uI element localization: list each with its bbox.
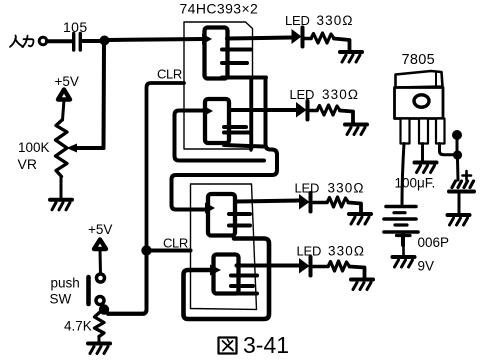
wire CLR top xyxy=(147,83,185,246)
+5V output terminal dot xyxy=(452,130,462,140)
counter U1a QB stub xyxy=(222,48,251,52)
battery BT1 006P bars xyxy=(384,207,418,233)
wire VR to ground xyxy=(60,177,63,200)
LED D4 xyxy=(299,258,310,274)
ground (LED4) xyxy=(351,280,373,290)
counter U1b clock arrow xyxy=(203,106,213,117)
counter U1b QD stub xyxy=(224,145,263,147)
svg-text:330Ω: 330Ω xyxy=(322,87,359,102)
resistor R4 330 zigzag xyxy=(328,261,350,271)
counter U1c QA output wire to LED3 xyxy=(235,201,300,202)
ground (LED3) xyxy=(349,214,371,224)
resistor 4.7K zigzag xyxy=(95,312,105,337)
wire R2 to ground xyxy=(340,111,353,125)
wire LED4 to resistor xyxy=(313,265,329,269)
svg-text:3-41: 3-41 xyxy=(243,332,289,358)
counter U1a QC stub xyxy=(222,61,247,65)
counter U1b QB stub xyxy=(224,125,246,129)
svg-text:105: 105 xyxy=(63,19,88,35)
wire LED3 to resistor xyxy=(313,201,328,205)
svg-text:330Ω: 330Ω xyxy=(328,244,365,259)
capacitor C2 100uF top plate hatched xyxy=(452,181,474,188)
ground (battery) xyxy=(393,257,415,267)
wire node down to VR wiper xyxy=(102,45,107,148)
svg-text:CLR: CLR xyxy=(157,67,182,82)
wire pin1 to battery xyxy=(402,144,404,205)
push switch SW plate xyxy=(86,277,91,304)
wire junction down to capacitor xyxy=(456,160,460,181)
LED D3 xyxy=(299,194,310,210)
counter U1c QC stub xyxy=(229,224,250,228)
counter U1a QA output wire to LED1 xyxy=(227,38,292,39)
wire LED2 to resistor xyxy=(310,109,318,113)
wire SW node to CLR line xyxy=(108,312,144,316)
svg-text:74HC393×2: 74HC393×2 xyxy=(180,1,259,17)
svg-text:VR: VR xyxy=(18,156,37,172)
IC outline top (thin) xyxy=(184,22,253,149)
counter U1c QB stub xyxy=(229,212,250,216)
wire capacitor to node xyxy=(82,39,100,43)
svg-text:CLR: CLR xyxy=(163,236,188,251)
wire CLR bottom to IC xyxy=(151,249,191,253)
svg-text:LED: LED xyxy=(295,181,320,196)
ground (LED1) xyxy=(340,52,362,62)
wire R4 to ground xyxy=(350,267,365,280)
svg-text:9V: 9V xyxy=(418,259,435,274)
LED D2 xyxy=(296,102,307,118)
wire node to counter1 clock xyxy=(108,39,203,40)
wire input to capacitor xyxy=(47,39,71,43)
node junction dot xyxy=(100,36,110,46)
regulator U2 7805 hole xyxy=(414,95,429,107)
capacitor C2 100uF bottom plate xyxy=(449,190,474,194)
VR wiper arrow xyxy=(67,144,78,153)
counter1 clock arrow xyxy=(202,34,212,45)
wire junction up to +5V terminal xyxy=(456,140,459,151)
counter U1d QB stub xyxy=(231,274,257,278)
ground (4.7K) xyxy=(88,344,110,354)
wire pin3 output xyxy=(440,144,454,155)
resistor R1 330 zigzag xyxy=(311,33,334,43)
push switch SW contact bottom xyxy=(96,297,104,305)
svg-text:SW: SW xyxy=(50,292,72,307)
wire battery stem xyxy=(397,234,411,237)
counter U1d QD stub xyxy=(231,292,257,296)
counter U1d block xyxy=(214,255,239,294)
svg-text:+5V: +5V xyxy=(88,222,112,237)
regulator U2 pin 1 xyxy=(401,119,410,144)
wire CLR down to push SW xyxy=(108,255,147,314)
counter U1a QD stub xyxy=(222,76,266,80)
node CLR junction dot xyxy=(141,245,151,255)
counter U1b QA output wire to LED2 xyxy=(229,108,296,112)
ground (LED2) xyxy=(345,125,367,135)
ground (capacitor) xyxy=(448,215,470,225)
svg-text:330Ω: 330Ω xyxy=(328,181,365,196)
+5V supply triangle (SW) xyxy=(94,240,106,250)
counter U1b block xyxy=(205,99,229,143)
plus sign (capacitor polarity) xyxy=(463,171,472,180)
svg-text:push: push xyxy=(51,276,80,291)
svg-text:100μF.: 100μF. xyxy=(395,176,436,191)
svg-text:4.7K: 4.7K xyxy=(64,319,92,334)
wire R3 to ground xyxy=(349,203,362,215)
ground (VR) xyxy=(50,200,72,210)
input terminal circle xyxy=(39,37,47,45)
wire LED1 to resistor xyxy=(304,37,311,41)
caption 図 glyph xyxy=(219,338,237,354)
svg-text:LED: LED xyxy=(285,13,310,28)
resistor VR 100K zigzag xyxy=(56,120,68,177)
wire pin2 to ground xyxy=(421,144,424,162)
svg-text:LED: LED xyxy=(290,87,315,102)
IC outline bottom (thin) xyxy=(191,184,257,310)
regulator U2 7805 tab xyxy=(396,71,443,88)
regulator U2 pin 3 xyxy=(436,119,445,144)
ground (7805 pin2) xyxy=(415,163,437,173)
wire capacitor to ground xyxy=(458,194,461,215)
wire 4.7K to ground xyxy=(98,337,101,344)
wire +5V to switch xyxy=(99,250,103,274)
counter U1d QA output wire to LED4 xyxy=(237,264,300,268)
counter U1d QC stub xyxy=(231,284,253,288)
resistor R3 330 zigzag xyxy=(327,197,349,207)
LED D1 xyxy=(292,29,302,44)
node SW junction dot xyxy=(99,304,109,314)
counter U1a block xyxy=(205,28,228,79)
counter U1b QC stub xyxy=(224,131,251,135)
label input 入力 xyxy=(10,36,33,48)
regulator U2 pin 2 xyxy=(419,119,428,144)
wire cascade U1c QD loop to U1d clock xyxy=(184,239,270,320)
capacitor C 105 xyxy=(72,34,75,51)
wire branch to counter U1b clock xyxy=(175,111,265,161)
svg-text:7805: 7805 xyxy=(402,52,435,68)
resistor R2 330 zigzag xyxy=(317,105,340,115)
svg-text:006P: 006P xyxy=(418,235,450,250)
counter U1c block xyxy=(208,194,235,236)
push switch SW contact top xyxy=(97,274,105,282)
wire +5V to VR xyxy=(63,100,65,120)
wire QD1 main drop / feed to counters xyxy=(172,78,278,210)
svg-text:330Ω: 330Ω xyxy=(317,13,354,28)
wire R1 to ground xyxy=(334,39,350,52)
+5V supply triangle (VR) xyxy=(58,90,70,100)
counter U1d clock arrow xyxy=(210,265,221,276)
node output junction dot xyxy=(453,150,462,159)
regulator U2 7805 body xyxy=(395,88,444,119)
svg-text:100K: 100K xyxy=(18,140,50,155)
wire wiper xyxy=(76,146,104,150)
wire QD1 drop at IC edge xyxy=(249,79,252,150)
svg-text:+5V: +5V xyxy=(55,74,79,89)
counter U1c clock arrow xyxy=(205,203,215,214)
